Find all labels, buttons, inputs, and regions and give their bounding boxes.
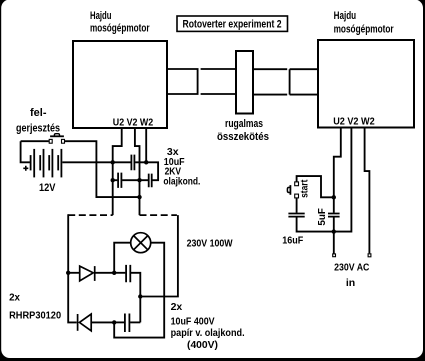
svg-text:10uF 400V: 10uF 400V [171,316,215,328]
title text [183,19,282,31]
label 2x RHRP30120 [9,293,61,322]
wire S2 to C6 [296,198,298,213]
battery value label 12V [39,182,56,194]
wire C5 to node C riser [130,321,140,323]
switch S1 [49,134,64,144]
label fel-gerjesztés [16,107,60,135]
svg-text:Rotoverter experiment 2: Rotoverter experiment 2 [183,19,282,31]
junction node A [137,195,141,199]
svg-text:U2 V2 W2: U2 V2 W2 [333,116,375,128]
wire node C to boundary [140,215,178,296]
dashed boundary right segment [140,214,177,216]
junction diode D1 anode [66,271,70,275]
wire M2 V2 drop [335,128,351,232]
junction node C [138,294,142,298]
svg-text:230V AC: 230V AC [334,262,370,274]
terminal AC 2 [368,254,371,257]
svg-text:Hajdu: Hajdu [90,10,112,22]
svg-text:gerjesztés: gerjesztés [16,123,60,135]
label start [299,179,310,198]
junction node B [112,271,116,275]
svg-text:mosógépmotor: mosógépmotor [90,23,150,35]
wire to diode D1 [68,272,80,274]
switch S2 start [287,182,298,198]
wire C6 to rail [297,217,334,231]
label 2x 10uF 400V papír v. olajkond. (400V) [171,301,245,351]
lamp feed left [114,243,131,273]
capacitor C5 10uF 400V [125,314,129,333]
label 16uF [282,235,303,247]
wire C1 to W2 node [135,162,158,180]
capacitor C6 16uF [288,214,304,217]
wire U2 drop [113,128,122,215]
wire rail2 left [113,179,118,181]
svg-text:in: in [346,277,355,289]
wire W2 drop [145,128,147,162]
svg-text:olajkond.: olajkond. [163,176,200,188]
motor M1 label Hajdu mosógépmotor [90,10,150,35]
svg-text:2x: 2x [171,301,183,313]
junction AC rail [332,229,336,233]
wire C7 top [333,197,335,213]
battery B1 12V [31,149,62,178]
motor M1 pins U2 V2 W2 [113,117,154,129]
svg-text:start: start [299,179,310,198]
junction rail1 W2 [144,160,148,164]
capacitor C2 10uF [118,173,121,188]
wire left branch down [68,214,77,322]
wire M2 U2 drop [334,128,341,197]
junction rail2 left [111,178,115,182]
svg-text:fel-: fel- [30,107,47,119]
terminal AC 1 [333,254,336,257]
wire battery negative to switch [21,141,49,162]
svg-text:2x: 2x [9,293,20,304]
svg-text:rugalmas: rugalmas [225,118,263,130]
label 3x 10uF 2KV olajkond. [163,146,200,188]
wire start branch [297,176,334,197]
dashed boundary left segment [68,214,113,216]
svg-text:230V 100W: 230V 100W [187,237,233,249]
motor M2 label Hajdu mosógépmotor [334,10,395,35]
wire V2 drop [135,128,140,215]
shaft left section [201,69,236,94]
svg-text:mosógépmotor: mosógépmotor [334,24,395,36]
shaft stub left [167,69,198,94]
lamp L1 230V 100W [131,233,151,253]
svg-text:12V: 12V [39,182,56,194]
svg-text:U2 V2 W2: U2 V2 W2 [113,117,154,129]
junction rail2 V2 [137,178,141,182]
wire D1 to node B [95,272,115,274]
capacitor C7 5uF [328,214,340,217]
motor M2 box [318,40,414,128]
svg-text:Hajdu: Hajdu [334,10,357,22]
junction start branch [332,195,336,199]
capacitor C3 10uF [149,174,152,188]
motor M1 box [73,41,167,128]
svg-text:(400V): (400V) [187,339,218,351]
wire node B to C4 [114,272,125,274]
junction rail1 U2 [111,160,115,164]
coupling label rugalmas összekötés [217,118,269,143]
svg-text:RHRP30120: RHRP30120 [9,310,61,322]
shaft stub right [290,69,318,94]
battery plus label [23,166,28,171]
junction node D [112,320,116,324]
diode D1 RHRP30120 [80,266,95,281]
capacitor C4 10uF 400V [126,265,130,282]
wire C4 to node C [131,273,140,323]
svg-text:összekötés: összekötés [217,131,269,143]
wire battery positive rail [62,161,130,163]
label 5uF [317,208,328,226]
title box Rotoverter experiment 2 [177,16,288,31]
lamp label 230V 100W [187,237,233,249]
shaft right section [253,69,287,94]
wire lamp right [114,243,164,338]
svg-text:papír v. olajkond.: papír v. olajkond. [171,327,245,339]
diode D2 RHRP30120 [78,314,92,331]
motor M2 pins U2 V2 W2 [333,116,375,128]
wire M2 W2 drop [365,128,370,253]
svg-text:5uF: 5uF [317,208,328,226]
wire node D to C5 [114,321,124,323]
capacitor C1 10uF [131,155,134,171]
label 230V AC in [334,262,370,289]
coupling box [236,51,253,114]
wire D2 to node D [91,321,114,323]
wire rail2 middle [122,179,148,181]
wire switch to node A [65,141,140,197]
wire C7 bottom to terminal [333,217,335,253]
svg-text:16uF: 16uF [282,235,303,247]
